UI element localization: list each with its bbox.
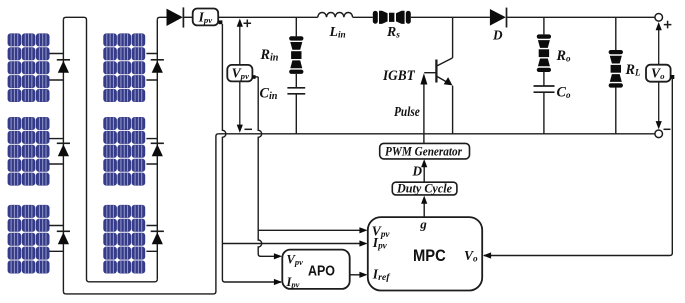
svg-text:D: D: [492, 28, 503, 43]
wire module2 string2 taps: [146, 139, 157, 164]
resistor Ro: [537, 34, 551, 72]
resistor Rin branch wire top: [295, 17, 297, 36]
wire bottom rail: [218, 133, 654, 135]
svg-text:PWM Generator: PWM Generator: [385, 144, 462, 158]
wire RL to bottom rail: [615, 88, 617, 134]
bypass diode string2 D1: [151, 60, 164, 73]
PV module string2 M3: [103, 205, 145, 274]
wire module3 string2 taps: [146, 226, 157, 252]
PV module string1 M2: [8, 117, 50, 186]
bypass diode string1 D2: [57, 143, 70, 156]
wire return to PV bottom bus: [63, 134, 218, 294]
PV module string1 M1: [8, 33, 50, 102]
wire module2 string1 taps: [49, 139, 63, 164]
wire Ipv signal vertical (hops rail): [222, 24, 281, 282]
wire Vpv signal vertical (hops rail and Ipv line): [258, 77, 262, 256]
resistor Rin: [289, 36, 303, 74]
bypass diode string2 D2: [151, 143, 164, 156]
capacitor Co: [534, 86, 555, 92]
wire module1 string1 taps: [49, 54, 63, 81]
arrow Duty Cycle to PWM Generator: [421, 159, 427, 182]
wire Pulse gate drive with up arrow: [420, 73, 427, 143]
wire top rail Ipv to Lin: [218, 16, 318, 18]
block Duty Cycle: [392, 181, 457, 195]
block APO: [282, 250, 349, 290]
wire string2 backbone: [156, 20, 158, 280]
node Vpv tap nub: [252, 75, 256, 79]
svg-text:APO: APO: [308, 263, 335, 279]
node Vo tap nub: [670, 75, 674, 79]
voltmeter arrow Vpv line: [237, 19, 243, 133]
svg-text:MPC: MPC: [413, 246, 446, 265]
label minus (output): [664, 128, 671, 130]
bypass diode string1 D1: [57, 60, 70, 73]
wire Vpv tap to vertical: [256, 76, 259, 78]
block PWM Generator: [380, 143, 470, 159]
diode D: [490, 8, 507, 28]
svg-text:g: g: [419, 217, 427, 232]
block MPC: [368, 217, 482, 291]
svg-text:IGBT: IGBT: [382, 68, 416, 84]
wire MPC Ipv input h2: [222, 240, 367, 246]
svg-text:D: D: [412, 164, 423, 179]
wire module3 string1 taps: [49, 226, 63, 252]
node Ipv tap nub: [219, 20, 223, 24]
wire Vo feedback to MPC: [483, 77, 672, 259]
terminal output minus: [655, 130, 663, 138]
wire Lin to Rs: [353, 16, 373, 18]
PV module string2 M2: [103, 117, 145, 186]
wire D to output terminal: [507, 16, 655, 18]
label plus (output): [664, 21, 672, 29]
voltmeter arrow Vo line: [656, 22, 662, 129]
svg-text:Duty Cycle: Duty Cycle: [396, 181, 452, 195]
wire Co to bottom rail: [543, 92, 545, 134]
resistor Rs: [373, 11, 411, 24]
capacitor Cin: [287, 88, 305, 94]
wire string2 top to blocking diode: [157, 17, 166, 20]
transistor IGBT: [424, 17, 452, 134]
resistor RL: [609, 50, 623, 88]
PV module string2 M1: [103, 33, 145, 102]
wire Rs to diode D: [411, 16, 490, 18]
blocking diode (array): [167, 7, 193, 27]
inductor Lin: [318, 12, 353, 17]
arrow MPC g output to Duty Cycle: [421, 196, 427, 218]
svg-text:Pulse: Pulse: [394, 104, 420, 119]
wire APO Iref output to MPC: [350, 272, 368, 278]
wire Rin to Cin: [295, 74, 297, 88]
voltmeter Vo box: [646, 65, 671, 82]
wire Ro to Co: [543, 72, 545, 86]
terminal output plus: [655, 13, 663, 21]
wire Cin to bottom rail: [295, 94, 297, 134]
arrow APO Ipv input: [274, 279, 282, 285]
bypass diode string1 D3: [57, 231, 70, 244]
label plus (input): [244, 20, 252, 28]
bypass diode string2 D3: [151, 231, 164, 244]
arrow APO Vpv input: [260, 253, 282, 259]
wire string1 top loop to string2 bottom: [63, 17, 157, 282]
label minus (input): [245, 128, 253, 130]
voltmeter Vpv box: [227, 65, 252, 82]
resistor Ro branch wire: [543, 17, 545, 34]
current sensor Ipv box: [193, 9, 219, 26]
resistor RL branch wire: [615, 17, 617, 50]
wire MPC Vpv input h1: [258, 227, 367, 233]
wire string1 backbone: [62, 20, 64, 292]
PV module string1 M3: [8, 205, 50, 274]
wire module1 string2 taps: [146, 54, 157, 81]
